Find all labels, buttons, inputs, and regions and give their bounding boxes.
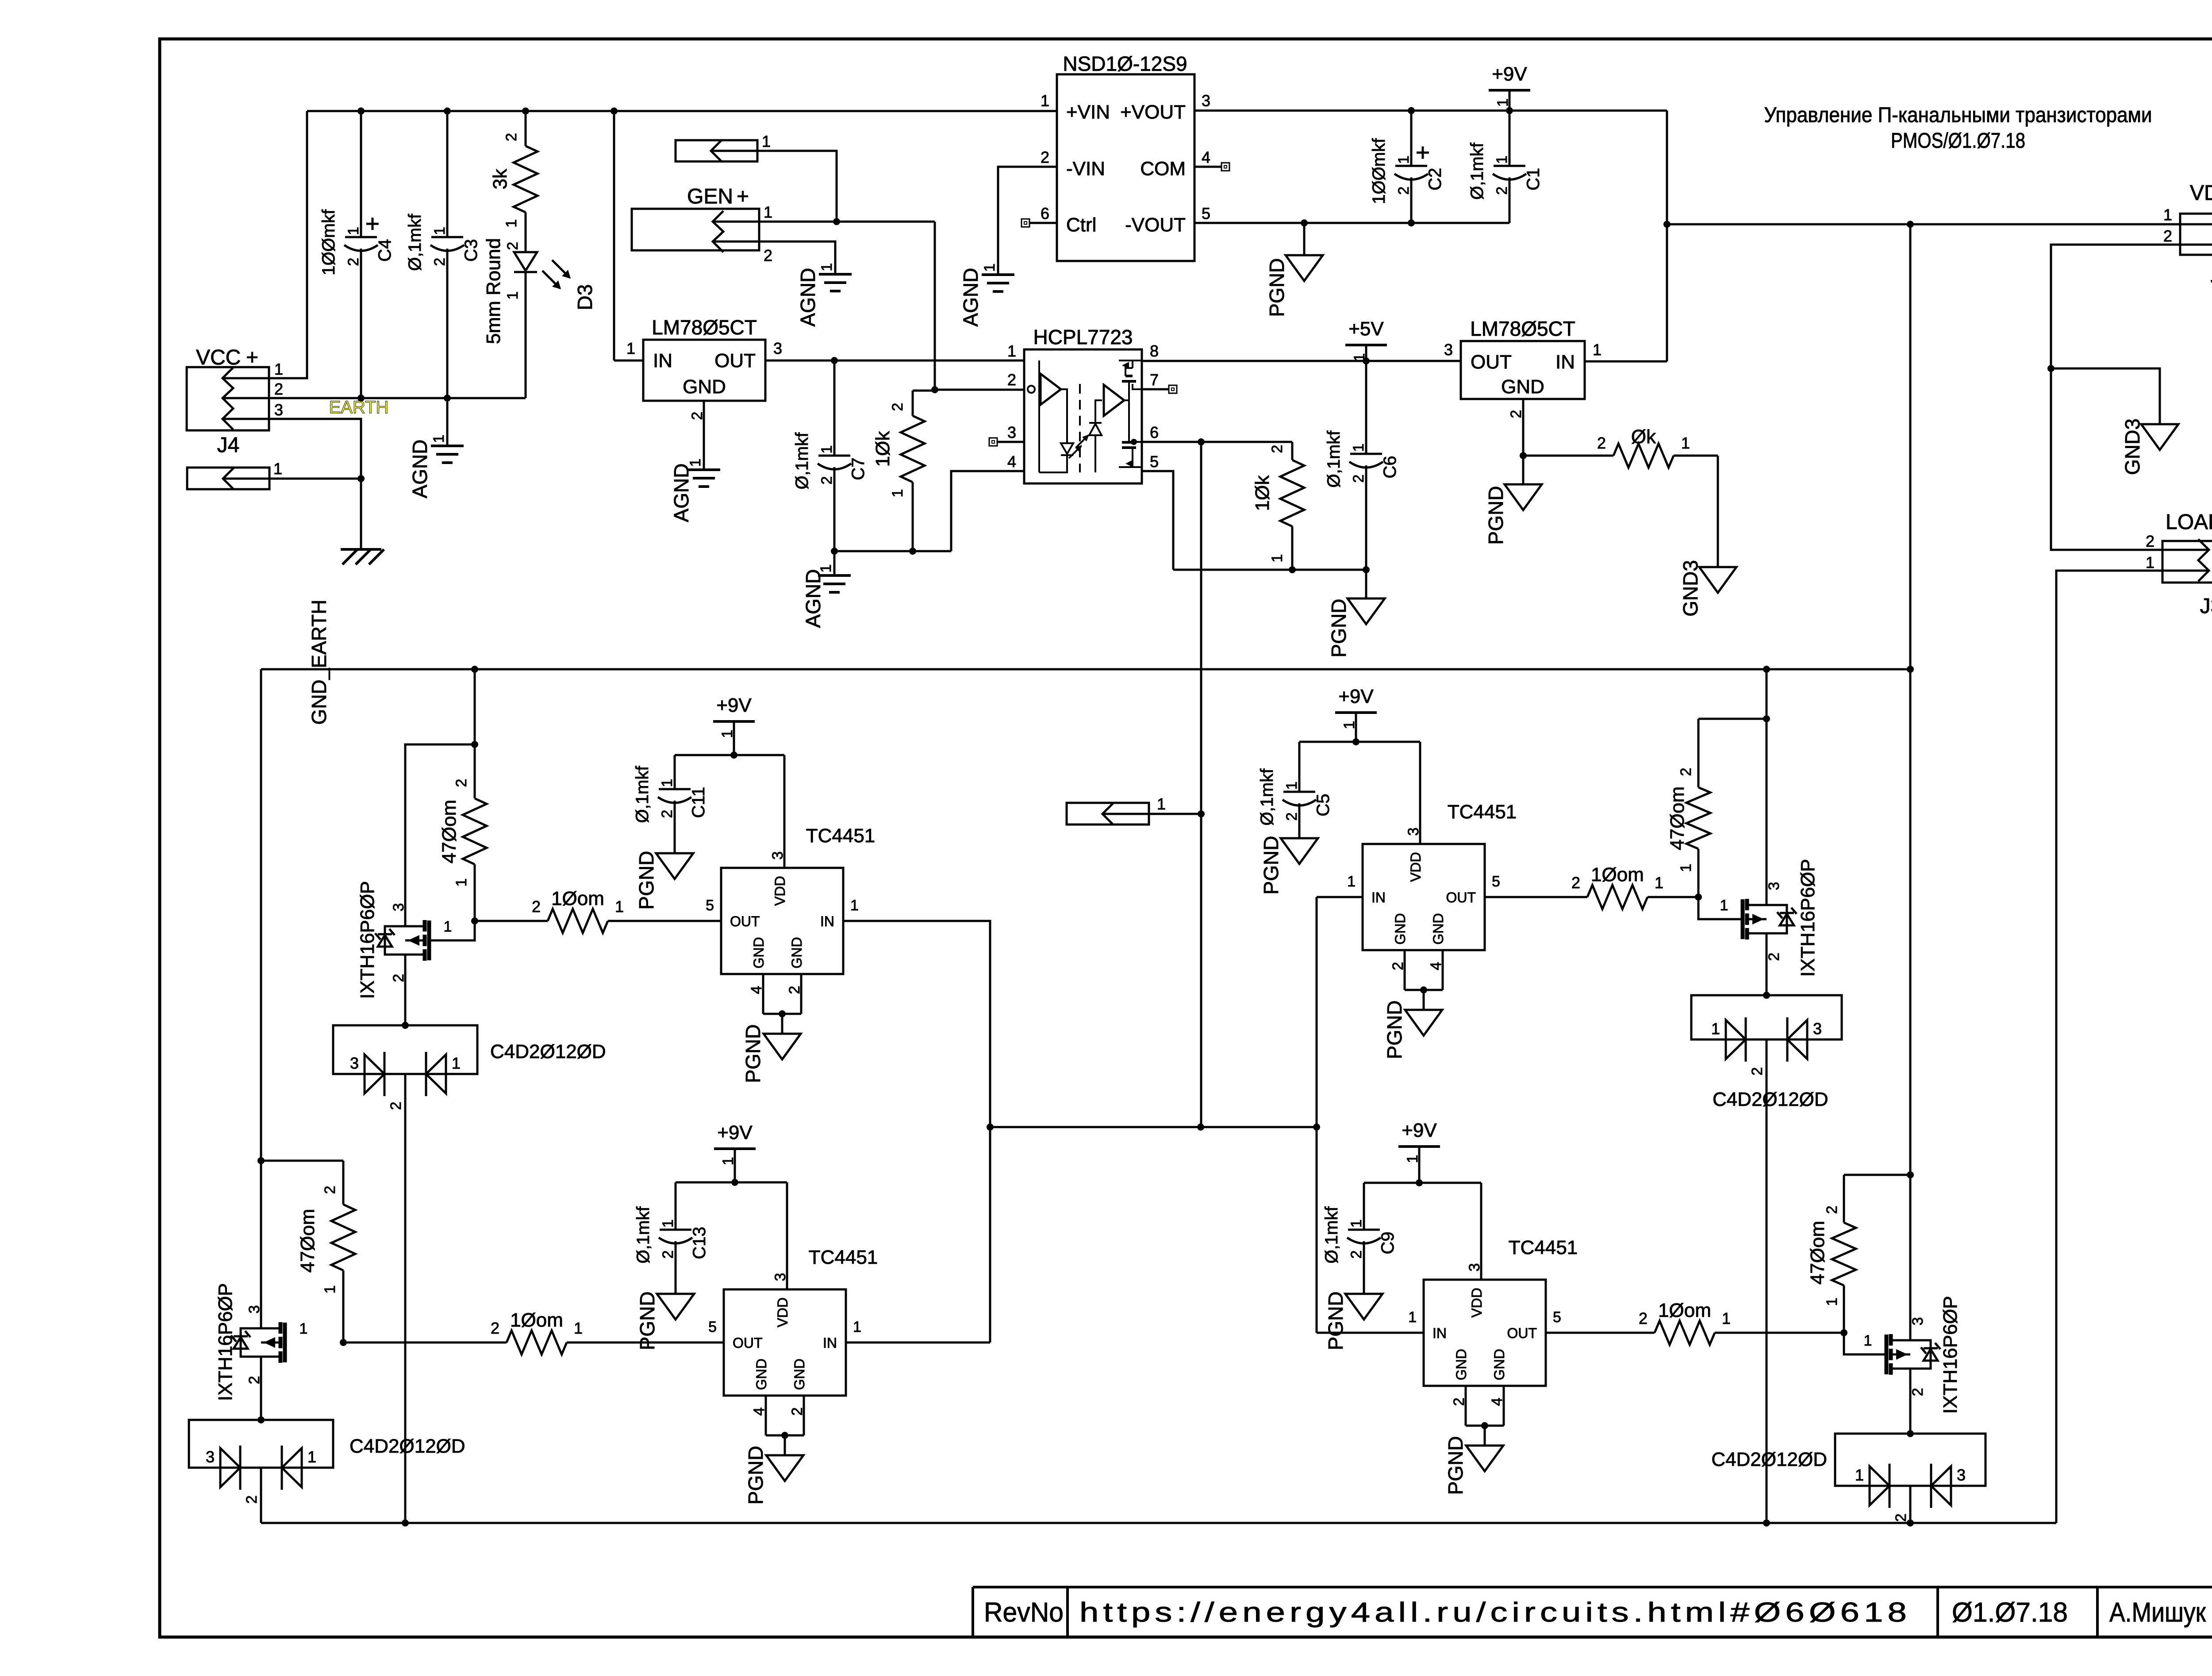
svg-text:GND: GND <box>751 937 767 968</box>
svg-text:1: 1 <box>2146 553 2154 571</box>
svg-text:5: 5 <box>1202 204 1210 222</box>
svg-text:GND: GND <box>1491 1349 1507 1380</box>
svg-text:C3: C3 <box>461 239 481 261</box>
svg-text:IN: IN <box>1371 890 1386 905</box>
svg-text:1: 1 <box>274 360 283 378</box>
svg-text:1: 1 <box>504 291 521 300</box>
svg-text:2: 2 <box>1395 187 1412 195</box>
svg-text:PGND: PGND <box>1383 1001 1406 1059</box>
svg-text:Ø,1mkf: Ø,1mkf <box>1257 768 1277 826</box>
svg-text:1: 1 <box>981 264 998 272</box>
svg-text:1: 1 <box>444 918 452 935</box>
svg-text:3: 3 <box>1202 92 1210 110</box>
svg-text:VDD: VDD <box>1469 1288 1485 1318</box>
svg-text:6: 6 <box>1041 204 1049 222</box>
svg-text:1Øom: 1Øom <box>510 1309 563 1331</box>
svg-text:PGND: PGND <box>1324 1292 1347 1350</box>
svg-text:1: 1 <box>1824 1298 1840 1306</box>
svg-text:5mm Round: 5mm Round <box>483 238 504 344</box>
svg-text:1: 1 <box>1655 874 1663 892</box>
svg-text:IN: IN <box>1432 1325 1447 1341</box>
svg-text:2: 2 <box>889 403 906 411</box>
svg-text:C1: C1 <box>1524 168 1543 190</box>
svg-text:3: 3 <box>1813 1020 1822 1038</box>
svg-text:1: 1 <box>853 1319 861 1335</box>
svg-text:1Øom: 1Øom <box>551 888 604 909</box>
svg-text:2: 2 <box>243 1496 260 1504</box>
svg-text:GND: GND <box>789 937 805 968</box>
svg-text:5: 5 <box>1492 873 1500 890</box>
svg-text:2: 2 <box>1348 1250 1365 1259</box>
svg-text:1: 1 <box>431 227 448 235</box>
svg-text:D3: D3 <box>573 284 596 311</box>
svg-text:7: 7 <box>1150 371 1159 389</box>
svg-text:OUT: OUT <box>1446 890 1476 905</box>
svg-text:2: 2 <box>1824 1206 1840 1214</box>
svg-text:8: 8 <box>1150 342 1159 360</box>
svg-text:1: 1 <box>818 445 835 454</box>
svg-text:5: 5 <box>1150 453 1159 471</box>
svg-text:2: 2 <box>453 779 470 787</box>
svg-text:+: + <box>737 185 749 208</box>
svg-text:Ctrl: Ctrl <box>1066 214 1096 236</box>
svg-text:+9V: +9V <box>1338 686 1374 707</box>
svg-text:Ø,1mkf: Ø,1mkf <box>633 766 652 823</box>
svg-text:3: 3 <box>1957 1466 1966 1484</box>
svg-text:1: 1 <box>889 489 906 498</box>
svg-text:1: 1 <box>1007 342 1016 360</box>
svg-text:1: 1 <box>762 132 771 150</box>
svg-text:3: 3 <box>206 1448 215 1466</box>
svg-text:Управление П-канальными транзи: Управление П-канальными транзисторами <box>1764 104 2152 127</box>
svg-text:3k: 3k <box>489 169 511 189</box>
svg-text:1: 1 <box>659 779 676 787</box>
svg-text:1: 1 <box>1864 1332 1872 1349</box>
svg-text:+VOUT: +VOUT <box>1120 101 1186 123</box>
svg-text:2: 2 <box>764 246 772 265</box>
svg-text:2: 2 <box>322 1186 338 1194</box>
svg-text:OUT: OUT <box>714 350 756 372</box>
svg-text:IXTH16P6ØP: IXTH16P6ØP <box>1939 1296 1961 1414</box>
svg-text:3: 3 <box>1766 882 1782 890</box>
svg-text:IN: IN <box>823 1335 837 1351</box>
svg-text:J2: J2 <box>2211 265 2212 289</box>
svg-text:1: 1 <box>850 897 859 914</box>
svg-text:2: 2 <box>1893 1514 1909 1522</box>
svg-text:Ø1.Ø7.18: Ø1.Ø7.18 <box>1952 1597 2068 1628</box>
svg-text:1ØØmkf: 1ØØmkf <box>1369 138 1389 204</box>
svg-text:AGND: AGND <box>802 569 825 628</box>
svg-text:3: 3 <box>1444 341 1453 359</box>
svg-text:1: 1 <box>2163 206 2172 224</box>
svg-text:1: 1 <box>1855 1466 1864 1484</box>
svg-text:https://energy4all.ru/circuits: https://energy4all.ru/circuits.html#Ø6Ø6… <box>1079 1597 1911 1628</box>
svg-text:3: 3 <box>1909 1317 1926 1326</box>
svg-text:C4D2Ø12ØD: C4D2Ø12ØD <box>349 1435 465 1457</box>
svg-text:1: 1 <box>430 435 447 443</box>
svg-text:C4D2Ø12ØD: C4D2Ø12ØD <box>1713 1089 1828 1110</box>
svg-text:47Øom: 47Øom <box>1667 786 1688 850</box>
svg-text:VDD: VDD <box>775 1297 791 1327</box>
svg-text:HCPL7723: HCPL7723 <box>1033 326 1133 349</box>
svg-text:1: 1 <box>1494 156 1510 164</box>
svg-text:2: 2 <box>2163 227 2172 245</box>
svg-text:1Øk: 1Øk <box>872 431 894 467</box>
svg-text:1: 1 <box>300 1320 308 1337</box>
svg-text:4: 4 <box>1489 1398 1505 1406</box>
svg-text:+9V: +9V <box>1492 63 1527 85</box>
svg-text:Ø,1mkf: Ø,1mkf <box>634 1206 653 1264</box>
svg-text:2: 2 <box>2146 532 2154 550</box>
svg-text:1ØØmkf: 1ØØmkf <box>319 209 338 276</box>
svg-text:1: 1 <box>307 1448 316 1466</box>
svg-text:1: 1 <box>1269 554 1286 563</box>
svg-text:1: 1 <box>1593 341 1601 359</box>
svg-text:1: 1 <box>1041 92 1049 110</box>
svg-text:1: 1 <box>764 203 772 221</box>
svg-text:2: 2 <box>1390 962 1406 970</box>
svg-text:47Øom: 47Øom <box>297 1209 319 1273</box>
svg-text:+: + <box>246 346 258 369</box>
svg-text:1Øom: 1Øom <box>1658 1300 1711 1321</box>
svg-text:TC4451: TC4451 <box>1448 801 1517 823</box>
svg-text:1: 1 <box>1347 873 1356 890</box>
svg-text:PGND: PGND <box>1265 258 1288 317</box>
svg-text:C5: C5 <box>1313 794 1333 816</box>
svg-text:J4: J4 <box>217 433 240 457</box>
svg-text:C13: C13 <box>690 1227 709 1259</box>
svg-text:+9V: +9V <box>716 694 752 716</box>
svg-text:1: 1 <box>1722 1309 1731 1327</box>
svg-text:Øk: Øk <box>1631 426 1656 448</box>
svg-text:C2: C2 <box>1425 168 1445 190</box>
svg-text:1: 1 <box>503 219 520 228</box>
svg-text:1: 1 <box>453 878 470 887</box>
svg-text:2: 2 <box>503 133 520 142</box>
svg-text:C7: C7 <box>849 457 868 480</box>
svg-text:1: 1 <box>1157 795 1166 813</box>
svg-text:IN: IN <box>1555 351 1575 373</box>
svg-text:3: 3 <box>350 1054 359 1072</box>
svg-text:C4: C4 <box>375 239 395 261</box>
svg-text:2: 2 <box>1041 148 1049 166</box>
svg-text:LM78Ø5CT: LM78Ø5CT <box>652 316 757 339</box>
svg-text:TC4451: TC4451 <box>806 825 876 847</box>
svg-text:PGND: PGND <box>1484 486 1507 545</box>
svg-text:1: 1 <box>660 1220 676 1228</box>
svg-text:VDD: VDD <box>772 876 788 906</box>
svg-text:2: 2 <box>504 242 521 250</box>
svg-text:1: 1 <box>1348 1220 1365 1228</box>
svg-text:GND_EARTH: GND_EARTH <box>307 600 330 725</box>
svg-text:4: 4 <box>1007 453 1016 471</box>
svg-text:+9V: +9V <box>717 1122 753 1143</box>
svg-text:IXTH16P6ØP: IXTH16P6ØP <box>215 1283 236 1401</box>
svg-text:2: 2 <box>789 1408 806 1416</box>
svg-text:PGND: PGND <box>744 1446 767 1505</box>
svg-text:2: 2 <box>1007 371 1016 389</box>
svg-text:LOAD: LOAD <box>2166 510 2212 534</box>
svg-text:47Øom: 47Øom <box>1807 1221 1828 1285</box>
svg-text:GND: GND <box>1501 376 1544 398</box>
svg-text:1: 1 <box>818 263 835 272</box>
svg-text:IN: IN <box>653 350 672 372</box>
svg-text:2: 2 <box>1909 1388 1926 1396</box>
svg-text:IN: IN <box>820 913 834 929</box>
svg-text:1: 1 <box>452 1054 461 1072</box>
svg-text:IXTH16P6ØP: IXTH16P6ØP <box>357 881 378 999</box>
svg-text:2: 2 <box>786 986 803 994</box>
svg-text:2: 2 <box>1269 445 1286 453</box>
svg-text:5: 5 <box>1553 1309 1561 1326</box>
svg-text:2: 2 <box>1766 953 1782 961</box>
svg-text:Ø,1mkf: Ø,1mkf <box>792 432 812 490</box>
svg-text:2: 2 <box>388 1102 404 1110</box>
svg-text:GND: GND <box>1392 913 1408 944</box>
svg-text:PGND: PGND <box>635 851 658 910</box>
svg-text:2: 2 <box>1571 874 1580 892</box>
svg-text:2: 2 <box>431 258 448 266</box>
svg-text:4: 4 <box>1428 962 1444 970</box>
svg-text:1: 1 <box>1408 1309 1417 1326</box>
svg-text:1: 1 <box>1720 897 1728 914</box>
svg-text:3: 3 <box>390 903 407 912</box>
svg-text:3: 3 <box>246 1305 263 1314</box>
svg-text:1: 1 <box>1350 444 1367 452</box>
svg-text:5: 5 <box>706 897 714 914</box>
svg-text:3: 3 <box>1007 423 1016 441</box>
svg-text:Ø,1mkf: Ø,1mkf <box>1324 430 1344 488</box>
svg-text:COM: COM <box>1140 158 1186 180</box>
svg-text:RevNo: RevNo <box>984 1597 1064 1628</box>
svg-text:-VOUT: -VOUT <box>1125 214 1186 236</box>
svg-text:1: 1 <box>626 339 635 357</box>
svg-text:Ø,1mkf: Ø,1mkf <box>1322 1206 1341 1264</box>
svg-text:OUT: OUT <box>730 913 760 929</box>
svg-text:VCC: VCC <box>196 346 241 369</box>
svg-text:C11: C11 <box>689 787 708 818</box>
svg-text:TC4451: TC4451 <box>1509 1237 1578 1258</box>
svg-text:TC4451: TC4451 <box>809 1246 878 1268</box>
svg-text:NSD1Ø-12S9: NSD1Ø-12S9 <box>1063 52 1187 75</box>
svg-text:1: 1 <box>322 1285 338 1294</box>
svg-text:1: 1 <box>1711 1020 1720 1038</box>
svg-text:3: 3 <box>274 401 283 419</box>
svg-text:C6: C6 <box>1380 456 1400 478</box>
svg-text:IXTH16P6ØP: IXTH16P6ØP <box>1797 859 1819 977</box>
svg-text:1: 1 <box>574 1319 583 1337</box>
svg-text:2: 2 <box>1749 1067 1766 1076</box>
svg-text:1: 1 <box>1395 156 1412 164</box>
svg-text:J3: J3 <box>2200 594 2212 618</box>
svg-text:2: 2 <box>1494 187 1510 195</box>
svg-text:1: 1 <box>345 227 362 235</box>
svg-text:2: 2 <box>345 258 362 266</box>
svg-text:Ø,1mkf: Ø,1mkf <box>1467 142 1487 200</box>
svg-text:Ø,1mkf: Ø,1mkf <box>405 214 425 271</box>
svg-text:AGND: AGND <box>959 268 982 327</box>
svg-text:LM78Ø5CT: LM78Ø5CT <box>1470 317 1575 340</box>
svg-text:2: 2 <box>491 1319 499 1337</box>
svg-text:AGND: AGND <box>796 268 819 327</box>
svg-text:2: 2 <box>818 476 835 485</box>
svg-text:2: 2 <box>1639 1309 1647 1327</box>
svg-text:2: 2 <box>1678 768 1694 776</box>
svg-text:2: 2 <box>274 380 283 398</box>
svg-text:2: 2 <box>1283 813 1300 821</box>
svg-text:GND3: GND3 <box>2121 418 2144 475</box>
svg-text:1Øk: 1Øk <box>1252 475 1273 511</box>
svg-text:4: 4 <box>751 1408 768 1416</box>
svg-text:VDD: VDD <box>1408 852 1424 882</box>
svg-text:AGND: AGND <box>408 440 431 499</box>
svg-text:1: 1 <box>1678 864 1694 872</box>
svg-text:GEN: GEN <box>687 185 733 208</box>
svg-text:1: 1 <box>1681 434 1690 452</box>
svg-text:C4D2Ø12ØD: C4D2Ø12ØD <box>1711 1449 1827 1470</box>
svg-text:PMOS/Ø1.Ø7.18: PMOS/Ø1.Ø7.18 <box>1891 129 2025 153</box>
svg-text:VDS: VDS <box>2190 181 2212 205</box>
svg-text:C9: C9 <box>1378 1231 1398 1254</box>
svg-text:+9V: +9V <box>1402 1120 1437 1141</box>
svg-text:2: 2 <box>1350 475 1367 483</box>
svg-text:6: 6 <box>1150 423 1159 441</box>
svg-text:2: 2 <box>659 810 676 818</box>
svg-text:OUT: OUT <box>1507 1325 1537 1341</box>
svg-text:+VIN: +VIN <box>1066 101 1110 123</box>
svg-text:GND: GND <box>753 1358 769 1390</box>
svg-text:GND: GND <box>1453 1349 1469 1380</box>
svg-text:PGND: PGND <box>741 1024 764 1083</box>
svg-text:GND: GND <box>1430 913 1446 944</box>
svg-text:PGND: PGND <box>636 1292 659 1350</box>
svg-text:AGND: AGND <box>670 464 693 522</box>
svg-text:PGND: PGND <box>1327 599 1350 658</box>
svg-text:А.Мишук: А.Мишук <box>2109 1597 2206 1628</box>
svg-text:47Øom: 47Øom <box>438 800 460 863</box>
svg-text:3: 3 <box>773 339 782 357</box>
svg-text:OUT: OUT <box>1471 351 1512 373</box>
svg-text:4: 4 <box>748 986 765 994</box>
svg-text:GND: GND <box>791 1358 807 1390</box>
svg-text:PGND: PGND <box>1444 1436 1467 1495</box>
svg-text:2: 2 <box>532 897 541 916</box>
svg-text:1: 1 <box>615 897 624 916</box>
svg-text:2: 2 <box>1451 1398 1467 1406</box>
svg-text:2: 2 <box>660 1250 676 1259</box>
svg-text:2: 2 <box>1597 434 1606 452</box>
svg-text:+5V: +5V <box>1348 318 1384 340</box>
svg-text:1: 1 <box>1283 782 1300 790</box>
svg-text:OUT: OUT <box>733 1335 763 1351</box>
svg-text:4: 4 <box>1202 148 1210 166</box>
svg-text:1: 1 <box>273 460 282 478</box>
svg-text:PGND: PGND <box>1260 836 1283 895</box>
svg-text:GND: GND <box>683 376 726 398</box>
svg-text:GND3: GND3 <box>1679 560 1702 617</box>
svg-text:5: 5 <box>708 1319 717 1335</box>
svg-text:2: 2 <box>1508 410 1525 418</box>
svg-text:1Øom: 1Øom <box>1591 864 1644 886</box>
svg-text:-VIN: -VIN <box>1066 158 1105 180</box>
svg-text:C4D2Ø12ØD: C4D2Ø12ØD <box>490 1041 606 1062</box>
